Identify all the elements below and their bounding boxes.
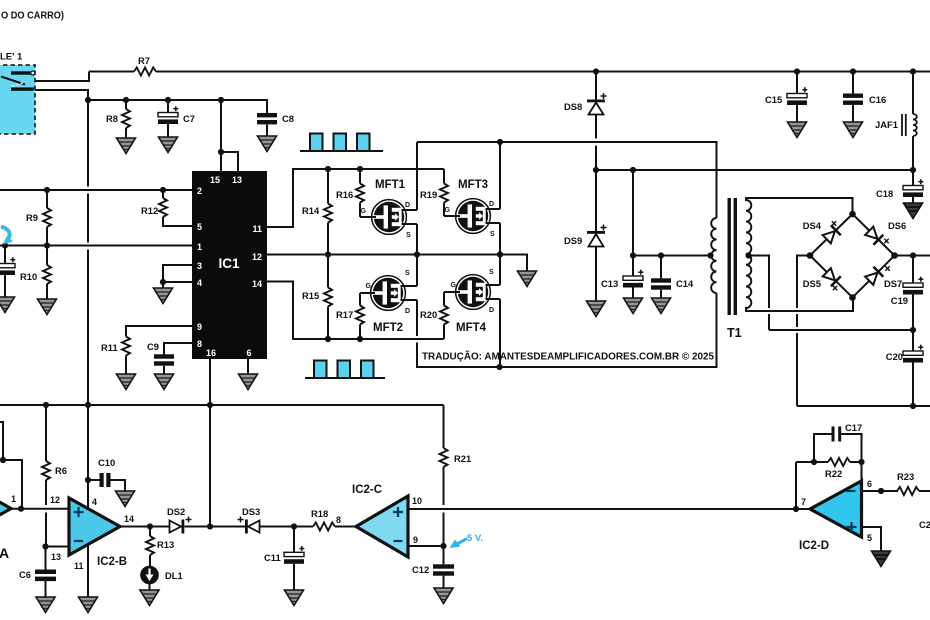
node mid rail x500 bbox=[497, 251, 503, 257]
resistor R17 bbox=[356, 293, 364, 339]
svg-text:D: D bbox=[489, 201, 494, 208]
svg-text:C9: C9 bbox=[147, 341, 159, 352]
svg-text:IC2-D: IC2-D bbox=[799, 540, 829, 552]
svg-text:13: 13 bbox=[51, 552, 61, 562]
op-amp IC2-D body bbox=[810, 481, 862, 537]
wire MFT2 drain to bottom bus bbox=[416, 300, 418, 367]
capacitor C15 bbox=[787, 72, 807, 123]
node upper gate rail R14 bbox=[325, 166, 331, 172]
resistor R14 bbox=[324, 169, 332, 255]
svg-text:S: S bbox=[405, 270, 410, 277]
capacitor C18 bbox=[903, 170, 923, 203]
ground mid rail stub bbox=[518, 271, 537, 287]
svg-text:R15: R15 bbox=[302, 290, 319, 301]
ground below C14 bbox=[652, 298, 671, 314]
op-amp IC1 body bbox=[192, 171, 267, 359]
wire DS2 to DS3 bbox=[185, 526, 246, 528]
ground below IC2-B pin 11 bbox=[79, 597, 98, 613]
svg-text:DS2: DS2 bbox=[167, 506, 185, 517]
wire MFT4 drain to bottom bus bbox=[499, 299, 501, 367]
svg-text:16: 16 bbox=[206, 348, 216, 358]
capacitor C8 bbox=[257, 113, 277, 136]
resistor R13 bbox=[146, 527, 154, 567]
svg-text:O DO CARRO): O DO CARRO) bbox=[1, 10, 64, 22]
wire IC2-C pin 9 bbox=[408, 545, 444, 547]
diode DS4 x mark bbox=[832, 221, 836, 225]
svg-text:5 V.: 5 V. bbox=[467, 533, 483, 544]
ground below DS9 bbox=[587, 301, 606, 317]
wire IC1 pin 12 mid rail bbox=[267, 255, 527, 272]
svg-text:13: 13 bbox=[232, 175, 242, 185]
diode DS7 x mark bbox=[885, 266, 889, 270]
svg-text:6: 6 bbox=[867, 479, 872, 489]
cyan arrow pointer left edge bbox=[1, 227, 13, 245]
5V annotation bbox=[450, 533, 484, 548]
node IC2-D pin 7 feedback junction bbox=[793, 506, 799, 512]
node pin2 wire R12 bbox=[160, 187, 166, 193]
node bridge top vertex bbox=[849, 211, 856, 218]
wire relay upper contact to R7 rail bbox=[35, 72, 89, 82]
wire IC1 pins 3 4 tied bbox=[163, 265, 192, 288]
resistor R21 bbox=[440, 405, 448, 546]
node top rail JAF1 junction bbox=[910, 68, 916, 74]
capacitor C13 bbox=[623, 256, 643, 299]
node mid rail x417 bbox=[414, 251, 420, 257]
node rail x88 bbox=[85, 97, 91, 103]
IC2-B plus mark bbox=[74, 507, 84, 517]
resistor R7 bbox=[89, 68, 156, 76]
wire bridge right vertex positive output bbox=[895, 255, 930, 257]
wire +12V top rail bbox=[156, 71, 930, 73]
diode DS5 bbox=[822, 267, 841, 286]
wire MFT1 drain bus x417 bbox=[416, 142, 418, 210]
svg-text:D: D bbox=[405, 308, 410, 315]
wire bridge left vertex to negative rail bbox=[797, 256, 930, 407]
node C10 branch bbox=[85, 477, 91, 483]
op-amp IC2-C body bbox=[356, 496, 408, 557]
capacitor C19 bbox=[903, 256, 923, 331]
ground below C9 bbox=[155, 374, 174, 390]
ground below C11 bbox=[285, 590, 304, 606]
resistor R6 bbox=[42, 405, 50, 547]
pulse waveform upper bbox=[300, 134, 383, 152]
svg-text:S: S bbox=[490, 231, 495, 238]
wire IC1 pin 11 to upper gate rail bbox=[267, 169, 444, 227]
relay RELE' 1 bbox=[0, 65, 35, 134]
capacitor C6 bbox=[35, 547, 56, 598]
node lower gate rail R15 bbox=[325, 336, 331, 342]
transistor MFT2 bbox=[360, 270, 417, 315]
svg-text:R21: R21 bbox=[454, 453, 471, 464]
pulse waveform lower bbox=[305, 361, 385, 379]
svg-text:R14: R14 bbox=[302, 205, 320, 216]
resistor R19 bbox=[440, 169, 448, 216]
node primary center tap bbox=[707, 252, 713, 258]
svg-text:DS3: DS3 bbox=[242, 506, 260, 517]
resistor R20 bbox=[440, 292, 448, 339]
wire inverting input bbox=[46, 546, 70, 548]
wire relay lower contact down to +12V rail bbox=[35, 90, 88, 100]
node secondary center tap bbox=[745, 252, 751, 258]
svg-text:C13: C13 bbox=[601, 278, 618, 289]
resistor R12 bbox=[159, 190, 192, 226]
ground IC1 pins 3 4 bbox=[154, 288, 173, 304]
svg-text:DS9: DS9 bbox=[564, 235, 582, 246]
ground below R8 bbox=[117, 138, 136, 154]
resistor R9 bbox=[43, 190, 51, 246]
svg-text:R17: R17 bbox=[336, 309, 353, 320]
svg-text:G: G bbox=[445, 207, 451, 214]
diode DS5 x mark bbox=[833, 286, 837, 290]
wire sense line to IC1 pin 1 bbox=[0, 245, 192, 247]
node GND output C19 C20 bbox=[910, 327, 916, 333]
ground below C10 bbox=[116, 491, 135, 507]
transformer T1 secondary winding bbox=[746, 200, 751, 308]
svg-text:5: 5 bbox=[197, 222, 202, 232]
svg-text:T1: T1 bbox=[727, 326, 742, 340]
svg-text:MFT2: MFT2 bbox=[373, 322, 403, 334]
svg-text:4: 4 bbox=[197, 278, 202, 288]
svg-text:D: D bbox=[489, 307, 494, 314]
node feed corner bbox=[0, 457, 6, 463]
wire bottom 12V rail bbox=[0, 404, 444, 406]
capacitor C17 bbox=[814, 427, 862, 463]
svg-text:R22: R22 bbox=[825, 468, 842, 479]
svg-text:S: S bbox=[406, 232, 411, 239]
node pin1 wire R9 R10 bbox=[44, 242, 50, 248]
node rail IC1 pin15 branch bbox=[218, 97, 224, 103]
led DL1 bbox=[141, 566, 158, 590]
resistor R18 bbox=[313, 523, 356, 531]
ground below left edge capacitor bbox=[0, 297, 15, 313]
node negative rail C20 bbox=[910, 403, 916, 409]
svg-text:G: G bbox=[361, 208, 367, 215]
capacitor C14 bbox=[651, 256, 671, 299]
resistor R10 bbox=[43, 246, 51, 300]
svg-text:C18: C18 bbox=[876, 188, 893, 199]
wire relay switched feed down left column bbox=[87, 90, 89, 480]
node bridge left vertex bbox=[807, 252, 814, 259]
svg-text:IC1: IC1 bbox=[218, 256, 240, 271]
transistor MFT1 bbox=[360, 200, 417, 239]
capacitor at left edge bbox=[0, 246, 15, 298]
svg-text:R7: R7 bbox=[138, 55, 150, 66]
wire MFT1 source to mid rail bbox=[416, 224, 418, 255]
svg-text:R20: R20 bbox=[420, 309, 437, 320]
diode DS2 bbox=[170, 517, 192, 534]
svg-text:R12: R12 bbox=[141, 205, 158, 216]
diode DS6 x mark bbox=[884, 239, 888, 243]
ground below DL1 bbox=[140, 590, 159, 606]
svg-text:G: G bbox=[451, 282, 457, 289]
capacitor C9 bbox=[154, 343, 192, 374]
wire left edge feed to noninverting input bbox=[0, 422, 22, 509]
node y170 DS9 bbox=[593, 167, 599, 173]
svg-text:8: 8 bbox=[336, 515, 341, 525]
node top rail DS8 junction bbox=[593, 68, 599, 74]
ground below C18 bbox=[904, 203, 923, 219]
wire switched 12V rail bbox=[88, 100, 267, 113]
svg-text:6: 6 bbox=[246, 348, 251, 358]
svg-text:14: 14 bbox=[124, 514, 134, 524]
svg-text:R13: R13 bbox=[157, 539, 174, 550]
node positive output C19 bbox=[910, 252, 916, 258]
diode DS7 bbox=[864, 267, 883, 286]
ground below C7 bbox=[159, 137, 178, 153]
node feedback C17 right bbox=[858, 459, 864, 465]
svg-text:7: 7 bbox=[801, 497, 806, 507]
wire secondary bottom to bridge bbox=[745, 298, 853, 312]
transformer T1 primary winding bbox=[711, 218, 716, 293]
wire IC2-B output bbox=[120, 526, 170, 528]
node mid rail R15 bbox=[325, 251, 331, 257]
svg-text:A: A bbox=[0, 545, 9, 561]
ground below C13 bbox=[624, 298, 643, 314]
svg-text:11: 11 bbox=[252, 224, 262, 234]
capacitor C10 bbox=[88, 473, 125, 491]
svg-text:IC2-C: IC2-C bbox=[352, 484, 382, 496]
svg-text:C11: C11 bbox=[264, 552, 281, 563]
node bridge bottom vertex bbox=[849, 294, 856, 301]
resistor R15 bbox=[324, 255, 332, 340]
svg-text:R6: R6 bbox=[55, 465, 67, 476]
ground below R10 bbox=[38, 299, 57, 315]
svg-text:C15: C15 bbox=[765, 94, 782, 105]
diode DS9 bbox=[587, 170, 607, 301]
capacitor C7 bbox=[158, 100, 178, 137]
node noninverting input junction bbox=[18, 506, 24, 512]
svg-text:10: 10 bbox=[412, 496, 422, 506]
wire drain rail to transformer primary top bbox=[417, 142, 717, 218]
wire IC1 pins 15 13 supply bbox=[221, 100, 238, 171]
svg-text:DS6: DS6 bbox=[888, 220, 906, 231]
wire IC1 pin 6 ground bbox=[247, 359, 249, 374]
svg-text:5: 5 bbox=[867, 533, 872, 543]
op-amp IC2-B body bbox=[69, 498, 120, 555]
wire IC2-B pin 4 supply bbox=[87, 480, 89, 509]
wire IC2-D feedback bbox=[796, 462, 828, 509]
svg-text:C17: C17 bbox=[845, 422, 862, 433]
svg-text:DL1: DL1 bbox=[165, 570, 183, 581]
op-amp IC2-A body bbox=[0, 480, 11, 537]
svg-text:2: 2 bbox=[197, 186, 202, 196]
node rail C7 bbox=[165, 97, 171, 103]
node lower gate rail R17 bbox=[357, 336, 363, 342]
node feedback C17 left bbox=[811, 459, 817, 465]
svg-text:C19: C19 bbox=[891, 295, 908, 306]
resistor R23 bbox=[897, 487, 930, 495]
svg-text:R16: R16 bbox=[336, 189, 353, 200]
node y170 C13 branch bbox=[630, 167, 636, 173]
ground below C6 bbox=[36, 597, 55, 613]
transistor MFT3 bbox=[444, 199, 500, 238]
wire C13 C14 branch to primary center tap bbox=[633, 170, 712, 256]
wire MFT2 source to mid rail bbox=[416, 255, 418, 287]
resistor R22 bbox=[828, 458, 862, 481]
svg-text:1: 1 bbox=[11, 494, 16, 504]
node pin 6 output bbox=[878, 488, 884, 494]
svg-text:MFT4: MFT4 bbox=[456, 322, 487, 334]
svg-text:R18: R18 bbox=[311, 508, 328, 519]
node bridge right vertex bbox=[891, 252, 898, 259]
capacitor C16 bbox=[843, 72, 863, 123]
node IC2-C pin 9 junction bbox=[440, 543, 446, 549]
node bottom rail R6 bbox=[43, 402, 49, 408]
node top rail C16 junction bbox=[850, 68, 856, 74]
svg-text:12: 12 bbox=[50, 495, 60, 505]
wire IC2-D pin 5 ground bbox=[862, 527, 882, 551]
IC2-C plus mark bbox=[393, 507, 403, 517]
svg-text:C16: C16 bbox=[869, 94, 886, 105]
node output R13 bbox=[147, 523, 153, 529]
wire IC1 pin 14 to lower gate rail bbox=[267, 282, 444, 340]
svg-text:DS5: DS5 bbox=[803, 278, 821, 289]
svg-text:C20: C20 bbox=[886, 351, 903, 362]
node C11 junction bbox=[291, 523, 297, 529]
resistor R11 bbox=[122, 326, 192, 374]
svg-text:TRADUÇÃO: AMANTESDEAMPLIFICADO: TRADUÇÃO: AMANTESDEAMPLIFICADORES.COM.BR… bbox=[422, 350, 714, 363]
resistor R16 bbox=[356, 169, 364, 217]
inductor JAF1 bbox=[902, 72, 917, 171]
node bottom rail relay feed bbox=[85, 402, 91, 408]
diode DS4 bbox=[822, 225, 841, 244]
node center tap wire C14 bbox=[658, 252, 664, 258]
svg-text:DS4: DS4 bbox=[803, 220, 822, 231]
svg-text:3: 3 bbox=[197, 261, 202, 271]
svg-text:1: 1 bbox=[197, 242, 202, 252]
svg-text:C12: C12 bbox=[412, 564, 429, 575]
wire bottom bus to transformer primary bottom bbox=[416, 293, 717, 367]
ground IC2-D pin 5 bbox=[872, 551, 891, 567]
node drain rail x500 bbox=[497, 139, 503, 145]
transformer T1 core bbox=[728, 198, 738, 315]
wire IC2-C pin 10 to IC2-D pin 7 bbox=[408, 508, 810, 510]
wire DS3 to R18 bbox=[260, 526, 314, 528]
svg-text:C10: C10 bbox=[98, 457, 115, 468]
wire secondary center tap to GND output bbox=[749, 256, 914, 331]
svg-text:IC2-B: IC2-B bbox=[97, 556, 127, 568]
ground below C8 bbox=[258, 136, 277, 152]
node rail R8 bbox=[123, 97, 129, 103]
node pin15 branch bbox=[218, 149, 224, 155]
node center tap wire C13 bbox=[630, 252, 636, 258]
wire MFT3 drain bus x500 bbox=[499, 142, 501, 209]
svg-text:R23: R23 bbox=[897, 471, 914, 482]
svg-text:C2: C2 bbox=[919, 519, 930, 530]
wire IC2-B pin 11 ground bbox=[87, 545, 89, 597]
resistor R8 bbox=[122, 100, 130, 138]
wire MFT4 source to mid rail bbox=[499, 255, 501, 286]
svg-text:4: 4 bbox=[92, 497, 97, 507]
node top rail C15 junction bbox=[794, 68, 800, 74]
svg-text:LE' 1: LE' 1 bbox=[0, 52, 23, 63]
node pin2 wire R9 bbox=[44, 187, 50, 193]
svg-text:MFT3: MFT3 bbox=[458, 179, 488, 191]
svg-text:C7: C7 bbox=[183, 113, 195, 124]
svg-text:MFT1: MFT1 bbox=[375, 179, 406, 191]
capacitor C11 bbox=[284, 527, 304, 591]
svg-text:JAF1: JAF1 bbox=[875, 119, 898, 130]
svg-text:15: 15 bbox=[210, 175, 220, 185]
svg-text:R8: R8 bbox=[106, 113, 118, 124]
bridge rectifier frame bbox=[810, 214, 895, 298]
svg-text:C14: C14 bbox=[676, 278, 694, 289]
node pin16 junction DS2 wire bbox=[207, 523, 213, 529]
IC2-D plus mark bbox=[847, 522, 857, 532]
svg-text:S: S bbox=[489, 269, 494, 276]
IC2-C minus mark bbox=[394, 540, 403, 542]
ground below R11 bbox=[117, 374, 136, 390]
wire MFT3 source to mid rail bbox=[499, 223, 501, 255]
ground IC1 pin 6 bbox=[239, 374, 258, 390]
wire secondary top to bridge bbox=[745, 198, 853, 214]
IC2-B minus mark bbox=[74, 540, 83, 542]
svg-text:R9: R9 bbox=[26, 212, 38, 223]
svg-text:9: 9 bbox=[413, 535, 418, 545]
svg-text:R10: R10 bbox=[20, 271, 37, 282]
node inverting input junction bbox=[42, 543, 48, 549]
svg-text:9: 9 bbox=[197, 322, 202, 332]
svg-text:14: 14 bbox=[252, 279, 262, 289]
IC2-D minus mark bbox=[847, 490, 856, 492]
svg-text:G: G bbox=[366, 283, 372, 290]
node bottom rail pin16 bbox=[207, 402, 213, 408]
wire rectified rail y170 bbox=[596, 169, 913, 171]
node upper gate rail R16 bbox=[357, 166, 363, 172]
svg-text:D: D bbox=[405, 202, 410, 209]
svg-text:DS7: DS7 bbox=[884, 278, 902, 289]
svg-text:12: 12 bbox=[252, 252, 262, 262]
wire IC2-A output to IC2-B noninverting input bbox=[11, 508, 69, 510]
wire IC2-D pin 6 output bbox=[862, 490, 899, 492]
svg-text:C8: C8 bbox=[282, 113, 294, 124]
svg-text:R19: R19 bbox=[420, 189, 437, 200]
node y170 JAF1 bbox=[910, 167, 916, 173]
ground below C12 bbox=[434, 588, 453, 604]
diode DS6 bbox=[864, 226, 883, 245]
node bottom bus x500 bbox=[496, 364, 502, 370]
diode DS3 bbox=[238, 517, 260, 534]
wire IC1 pin 16 down bbox=[209, 359, 211, 527]
capacitor C12 bbox=[433, 546, 454, 588]
ground below C16 bbox=[844, 122, 863, 138]
svg-text:C6: C6 bbox=[19, 569, 31, 580]
transistor MFT4 bbox=[444, 269, 500, 314]
svg-text:11: 11 bbox=[74, 561, 84, 571]
svg-text:DS8: DS8 bbox=[564, 101, 582, 112]
node pins 3 4 bbox=[160, 279, 166, 285]
node pin1 wire cap branch bbox=[2, 242, 8, 248]
svg-text:R11: R11 bbox=[101, 342, 118, 353]
ground below C15 bbox=[788, 122, 807, 138]
diode DS8 bbox=[587, 72, 607, 171]
svg-text:8: 8 bbox=[197, 339, 202, 349]
capacitor C20 bbox=[903, 330, 923, 406]
wire battery sense to IC1 pin 2 bbox=[0, 189, 192, 191]
